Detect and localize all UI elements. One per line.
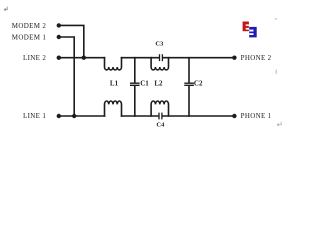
wire bottom rail LINE 1 to L1 [59,115,105,117]
wire bottom rail L1 to C4 left plate [122,115,159,117]
svg-text:L1: L1 [110,80,119,88]
svg-text:PHONE 1: PHONE 1 [241,112,272,120]
node LINE 1 terminal [57,114,61,118]
logo blue mirrored E [249,27,257,38]
node MODEM 2 terminal [57,23,61,27]
svg-text:L2: L2 [154,80,163,88]
capacitor C4 plates [159,113,162,120]
inductor L1 top winding [105,58,122,70]
return mark top-left [4,7,7,11]
junction MODEM1/LINE1 [72,114,76,118]
capacitor C2 bottom lead [188,86,190,116]
svg-text:MODEM 2: MODEM 2 [12,22,47,30]
inductor L2 bottom winding [151,101,168,116]
svg-text:C4: C4 [156,121,165,128]
capacitor C2 top lead [188,58,190,83]
inductor L2 top winding [151,58,168,70]
wire MODEM 1 to LINE 1 rail [59,37,74,116]
svg-text:LINE 1: LINE 1 [23,112,46,120]
logo red E [243,22,249,32]
node PHONE 1 terminal [232,114,236,118]
node PHONE 2 terminal [232,56,236,60]
inductor L1 bottom winding [105,101,122,116]
faint speck top-right [275,18,277,19]
wire top rail L1 to C3 left plate [122,57,159,59]
junction MODEM2/LINE2 [82,56,86,60]
capacitor C1 plates [130,83,140,85]
wire MODEM 2 to LINE 2 rail [59,25,84,57]
wire top rail LINE 2 to L1 [59,57,105,59]
capacitor C1 bottom lead [134,86,136,116]
svg-text:PHONE 2: PHONE 2 [241,54,272,62]
capacitor C2 plates [184,83,194,85]
capacitor C1 top lead [134,58,136,83]
svg-text:C1: C1 [140,80,149,88]
node MODEM 1 terminal [57,35,61,39]
svg-text:C2: C2 [194,80,203,88]
svg-text:MODEM 1: MODEM 1 [12,34,47,42]
wire bottom rail C4 right plate to PHONE 1 [163,115,235,117]
faint return mark bottom-right [277,122,281,126]
svg-text:LINE 2: LINE 2 [23,54,46,62]
wire top rail C3 right plate to PHONE 2 [163,57,234,59]
faint bracket mark right [276,70,277,74]
svg-text:C3: C3 [155,41,164,48]
capacitor C3 plates [160,54,163,61]
node LINE 2 terminal [57,56,61,60]
